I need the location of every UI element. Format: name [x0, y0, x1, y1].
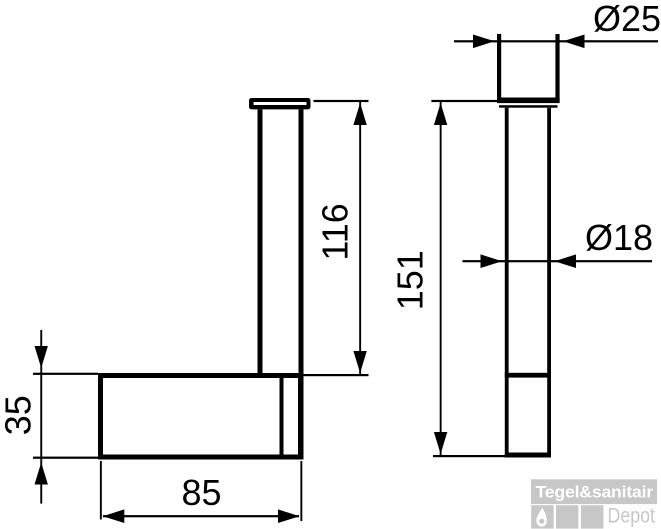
logo: square 3: [581, 505, 604, 528]
logo: square 1 with droplet: [531, 505, 554, 528]
svg-text:Ø18: Ø18: [585, 217, 653, 258]
dimension 85: right arrow: [278, 509, 300, 523]
right view: wall cup right edge: [555, 34, 559, 103]
dimension D18: left arrow: [481, 254, 503, 268]
dimension 151: top extension line: [431, 100, 497, 102]
svg-text:151: 151: [390, 250, 431, 310]
dimension 85: left arrow: [103, 509, 125, 523]
right view: wall cup left edge: [497, 34, 501, 103]
logo: top band: [531, 479, 657, 504]
dimension 151: top arrow: [434, 103, 447, 125]
dimension 116: top extension line: [314, 100, 369, 102]
dimension D18: right arrow: [555, 254, 577, 268]
dimension 35: dimension line: [40, 330, 42, 504]
right view: tube left edge: [505, 108, 509, 458]
dimension 116: bottom arrow: [353, 351, 366, 373]
dimension 151: dimension line: [440, 101, 442, 456]
dimension 85: dimension line: [103, 515, 299, 517]
svg-text:Tegel&sanitair: Tegel&sanitair: [536, 482, 654, 501]
dimension 151: bottom arrow: [434, 432, 447, 454]
left view: box inner vertical line: [280, 375, 284, 460]
dimension 116: top arrow: [353, 103, 366, 125]
left view: wall flange cap: [249, 98, 311, 109]
dimension 35: top extension line: [33, 373, 98, 375]
svg-text:35: 35: [0, 395, 38, 435]
svg-text:116: 116: [315, 203, 356, 260]
dimension 85: right extension line: [300, 461, 302, 521]
logo: square 2: [556, 505, 579, 528]
dimension 35: top arrow: [35, 346, 48, 368]
dimension 151: bottom extension line: [433, 455, 506, 457]
dimension D18: dimension line: [463, 260, 653, 262]
left view: holder box outline: [101, 376, 301, 458]
right view: tube right edge: [547, 108, 551, 458]
dimension 85: left extension line: [100, 461, 102, 520]
dimension D25: right arrow: [563, 35, 585, 49]
dimension 116: bottom extension line: [304, 374, 369, 376]
left view: post right edge: [299, 109, 304, 459]
dimension 35: bottom extension line: [33, 457, 101, 459]
right view: wall cup bottom: [497, 98, 560, 104]
dimension D25: left arrow: [473, 35, 495, 49]
svg-text:Depot: Depot: [608, 504, 656, 527]
right view: tube crossbar: [505, 373, 551, 378]
right view: cup lip line: [499, 105, 558, 108]
left view: post left edge: [258, 109, 263, 375]
dimension D25: dimension line: [454, 40, 658, 42]
svg-text:85: 85: [181, 472, 221, 513]
right view: tube bottom: [505, 453, 551, 458]
svg-text:Ø25: Ø25: [593, 0, 661, 39]
dimension 35: bottom arrow: [35, 463, 48, 485]
dimension 116: dimension line: [359, 101, 361, 375]
